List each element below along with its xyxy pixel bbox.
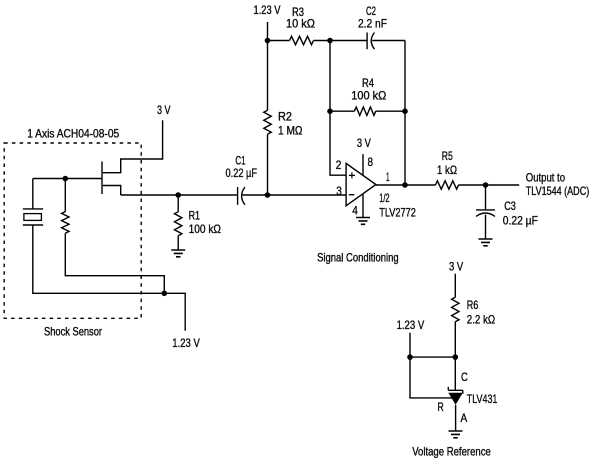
svg-text:3 V: 3 V <box>449 260 463 274</box>
svg-text:R1: R1 <box>189 209 201 223</box>
svg-text:2.2 nF: 2.2 nF <box>358 17 387 31</box>
svg-text:1.23 V: 1.23 V <box>397 318 425 332</box>
svg-text:R2: R2 <box>278 110 292 124</box>
svg-text:8: 8 <box>368 155 374 169</box>
svg-text:3 V: 3 V <box>157 103 171 117</box>
svg-text:2: 2 <box>336 158 342 172</box>
svg-text:TLV431: TLV431 <box>467 392 498 406</box>
svg-text:0.22 µF: 0.22 µF <box>226 166 258 180</box>
svg-text:Shock Sensor: Shock Sensor <box>44 325 102 339</box>
svg-text:Output to: Output to <box>526 171 565 185</box>
svg-text:1: 1 <box>386 170 390 184</box>
svg-text:A: A <box>461 411 468 425</box>
svg-text:1 kΩ: 1 kΩ <box>437 163 457 177</box>
svg-text:Signal Conditioning: Signal Conditioning <box>317 250 399 264</box>
svg-text:1.23 V: 1.23 V <box>172 336 200 350</box>
svg-text:1 MΩ: 1 MΩ <box>278 124 303 138</box>
svg-text:1/2: 1/2 <box>379 191 390 205</box>
svg-text:10 kΩ: 10 kΩ <box>286 17 315 31</box>
svg-text:1.23 V: 1.23 V <box>254 3 281 17</box>
svg-text:TLV2772: TLV2772 <box>379 205 416 219</box>
svg-text:R: R <box>438 400 444 414</box>
svg-text:1 Axis ACH04-08-05: 1 Axis ACH04-08-05 <box>27 126 119 140</box>
svg-text:2.2 kΩ: 2.2 kΩ <box>467 312 495 326</box>
svg-text:C3: C3 <box>504 199 516 213</box>
svg-text:100 kΩ: 100 kΩ <box>351 89 386 103</box>
svg-text:Voltage Reference: Voltage Reference <box>412 444 491 458</box>
svg-text:C: C <box>461 370 468 384</box>
svg-text:TLV1544 (ADC): TLV1544 (ADC) <box>526 184 589 198</box>
svg-text:R5: R5 <box>442 149 453 163</box>
svg-text:3: 3 <box>336 184 342 198</box>
svg-text:0.22 µF: 0.22 µF <box>503 214 538 228</box>
svg-text:4: 4 <box>352 203 358 217</box>
svg-text:3 V: 3 V <box>357 136 371 150</box>
svg-text:100 kΩ: 100 kΩ <box>189 222 221 236</box>
svg-text:R6: R6 <box>467 298 479 312</box>
